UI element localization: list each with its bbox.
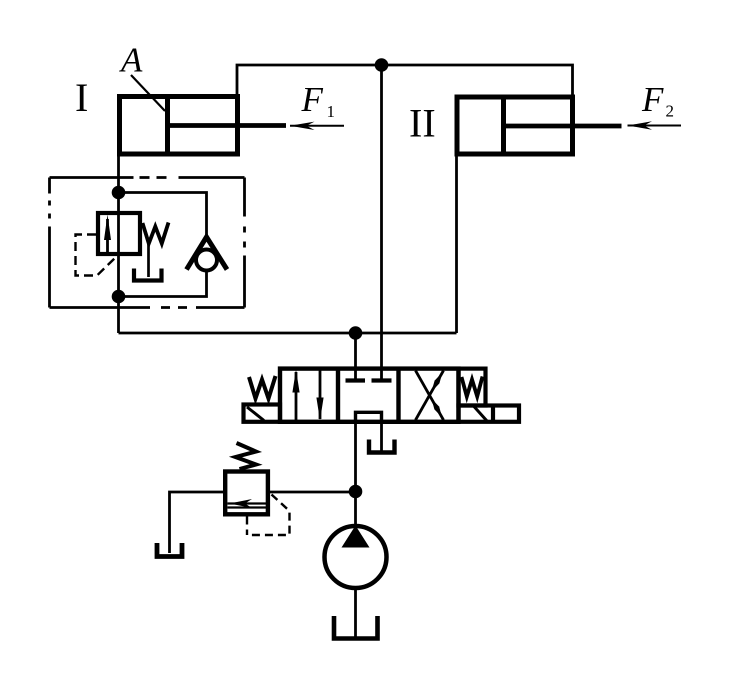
svg-text:A: A bbox=[119, 41, 143, 80]
svg-text:II: II bbox=[409, 101, 436, 146]
svg-text:2: 2 bbox=[666, 102, 675, 121]
svg-text:F: F bbox=[641, 80, 664, 119]
svg-text:F: F bbox=[301, 80, 324, 119]
svg-text:1: 1 bbox=[327, 102, 336, 121]
svg-text:I: I bbox=[75, 75, 88, 120]
